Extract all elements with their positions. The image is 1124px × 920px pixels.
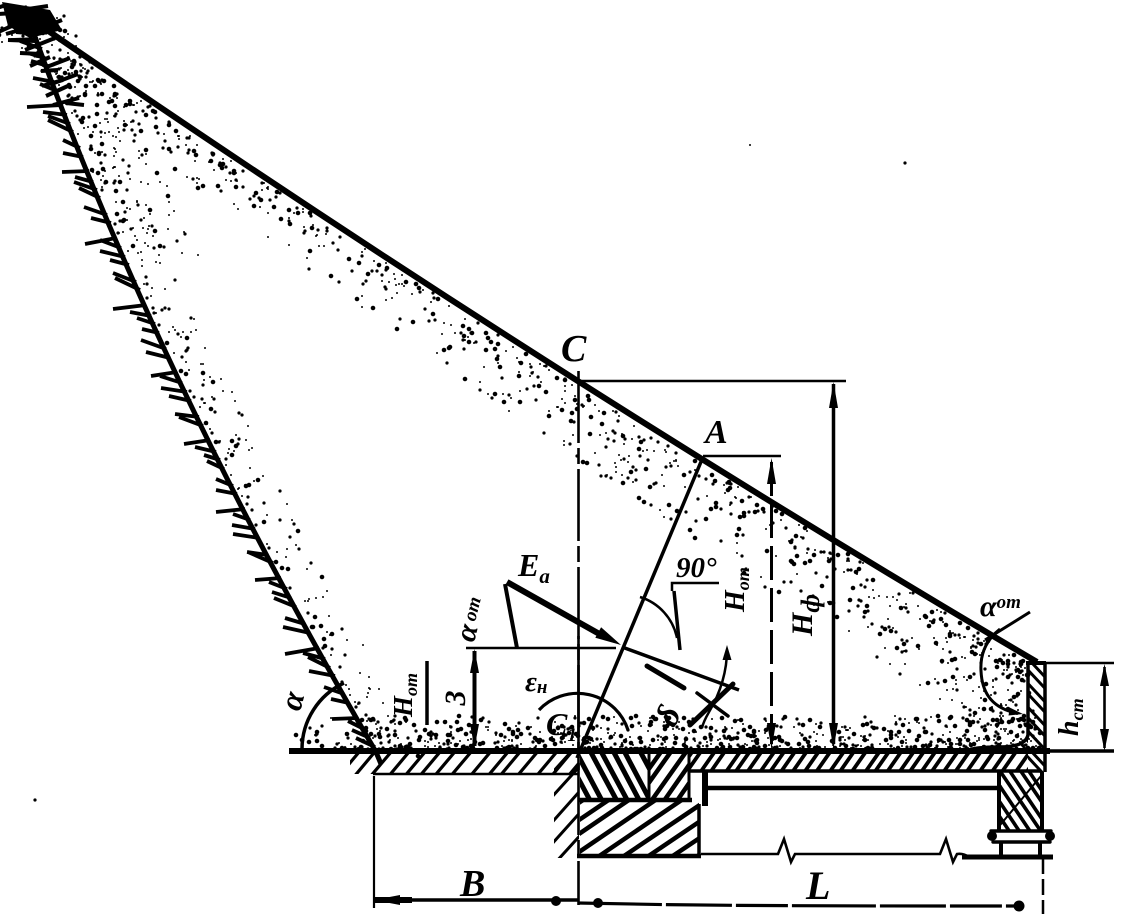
top corner rough strokes xyxy=(0,5,84,105)
foundation block 2 xyxy=(593,700,745,853)
block1/2 divider xyxy=(648,752,651,800)
thin relieving slab xyxy=(599,500,1118,920)
corner dark mass xyxy=(2,2,62,38)
svg-text:В: В xyxy=(459,863,485,905)
svg-text:C: C xyxy=(561,328,587,370)
dimension dots at axis xyxy=(551,896,561,906)
break line with zigzags xyxy=(701,839,969,862)
column right edge xyxy=(1040,772,1044,831)
foundation block 1 (dense back-hatch) xyxy=(534,690,694,861)
footing bottom line xyxy=(962,855,1053,860)
90-degree angle arc xyxy=(640,597,677,638)
tick line at A xyxy=(703,455,781,458)
H_f dimension line xyxy=(832,384,836,744)
footing block xyxy=(999,842,1003,856)
stipple dots: band under top slope line xyxy=(2,13,1040,751)
alpha_ot leader tick over slope xyxy=(985,612,1030,640)
svg-text:3: 3 xyxy=(439,691,472,707)
face wall hatch xyxy=(932,613,1124,824)
collar band xyxy=(991,829,1051,832)
top tick line at C (H_f) xyxy=(581,380,846,383)
block2 right edge xyxy=(688,752,691,800)
h_st dimension line xyxy=(1103,667,1106,748)
alpha angle arc xyxy=(302,683,344,749)
narrow hatched band left of axis xyxy=(455,691,679,918)
blocks bottom line xyxy=(578,798,692,803)
B dimension line xyxy=(374,898,578,902)
alpha_ot curved arrow xyxy=(981,629,1012,712)
face wall left face with curved foot xyxy=(966,664,1028,751)
label H_ot/3 fraction rotated xyxy=(388,661,472,725)
pile column cross strokes xyxy=(904,689,1124,914)
delta arm line xyxy=(622,647,739,690)
wall foot sliver hatch xyxy=(928,674,1066,812)
slab left step stub xyxy=(702,772,708,806)
soil hatch strip below ground (left of axis) xyxy=(268,569,659,920)
top slope surface line xyxy=(15,8,1037,662)
svg-text:L: L xyxy=(805,863,830,908)
H_ot/3 dimension line xyxy=(473,651,477,746)
ground line xyxy=(289,748,1050,754)
rupture plane line A-C1 xyxy=(577,457,703,758)
big foundation block xyxy=(518,706,762,920)
H_ot dimension line (dashed) xyxy=(770,462,773,744)
slope feather hatching xyxy=(11,9,375,747)
svg-text:90°: 90° xyxy=(676,552,717,584)
slash tick 2 xyxy=(690,684,733,725)
svg-text:A: A xyxy=(703,414,728,451)
left slope line xyxy=(24,6,381,764)
E_a force vector xyxy=(507,582,603,636)
pile column xyxy=(944,720,1098,882)
solid axis segment near C1 xyxy=(577,636,580,770)
slash tick 1 xyxy=(697,693,728,716)
slab bottom edge xyxy=(689,769,1040,773)
wall top edge xyxy=(1026,661,1046,665)
big block right edge xyxy=(697,804,701,856)
parallel tick dash under delta arm xyxy=(647,666,684,688)
H_ot/3 top tick line xyxy=(466,647,616,650)
column left edge xyxy=(997,772,1001,831)
soil strip bottom line xyxy=(373,773,578,776)
90-degree short vertical arm xyxy=(674,591,680,650)
ledge line under slab xyxy=(702,786,1002,791)
90-degree bracket xyxy=(672,583,719,591)
h_st top tick xyxy=(1046,662,1114,665)
face wall right face xyxy=(1043,662,1047,772)
big block bottom line xyxy=(577,854,701,859)
delta angle arc with up arrow xyxy=(702,650,727,728)
B dimension: left extension line xyxy=(373,776,375,908)
epsilon_n angle arc xyxy=(539,693,628,730)
L right extension line xyxy=(1042,858,1045,914)
h_st bottom tick extension xyxy=(1050,749,1114,753)
vertical axis line through C and C1 xyxy=(577,371,580,905)
L dimension line xyxy=(578,903,1016,906)
alpha_ot arm (short vertical) xyxy=(505,584,517,648)
